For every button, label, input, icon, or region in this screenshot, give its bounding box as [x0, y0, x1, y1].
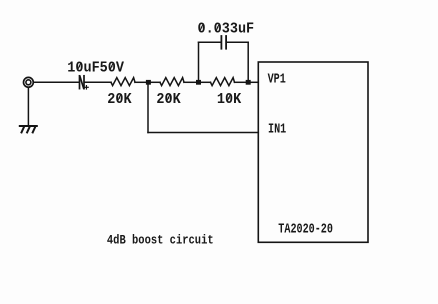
svg-text:10K: 10K	[217, 91, 242, 108]
wire node C to U1 pin VP1	[250, 81, 258, 83]
capacitor C2	[221, 36, 226, 49]
IC U1 TA2020-20 box	[258, 62, 368, 242]
wire C2 down to node C	[247, 42, 249, 80]
wire node B up to C2	[198, 42, 200, 80]
ground	[20, 126, 37, 132]
wire node A to R2	[150, 81, 160, 83]
svg-text:20K: 20K	[107, 91, 132, 108]
capacitor C1	[80, 76, 89, 89]
svg-text:20K: 20K	[156, 91, 181, 108]
node B junction	[196, 80, 201, 85]
wire node B to R3	[201, 81, 211, 83]
resistor R2	[160, 78, 184, 86]
wire C2 right lead	[227, 41, 249, 43]
svg-text:VP1: VP1	[268, 71, 286, 87]
svg-text:4dB boost circuit: 4dB boost circuit	[107, 233, 214, 248]
svg-text:TA2020-20: TA2020-20	[278, 221, 333, 237]
wire C1 to R1	[85, 81, 111, 83]
wire R1 to node A	[135, 81, 146, 83]
wire J1 to ground	[27, 87, 29, 125]
wire J1 to C1	[34, 81, 79, 83]
svg-text:10uF50V: 10uF50V	[67, 60, 124, 77]
wire node A to U1 pin IN1	[148, 132, 258, 134]
wire C2 left lead	[199, 41, 222, 43]
resistor R3	[211, 78, 235, 86]
wire R2 to node B	[184, 81, 197, 83]
connector J1	[24, 77, 34, 87]
node A junction	[146, 80, 151, 85]
svg-text:IN1: IN1	[268, 121, 286, 137]
resistor R1	[111, 78, 135, 86]
wire node A down	[147, 84, 149, 132]
svg-text:0.033uF: 0.033uF	[198, 21, 255, 38]
slashed zeros of value labels	[78, 24, 231, 101]
node C junction	[246, 80, 251, 85]
wire R3 to node C	[235, 81, 247, 83]
